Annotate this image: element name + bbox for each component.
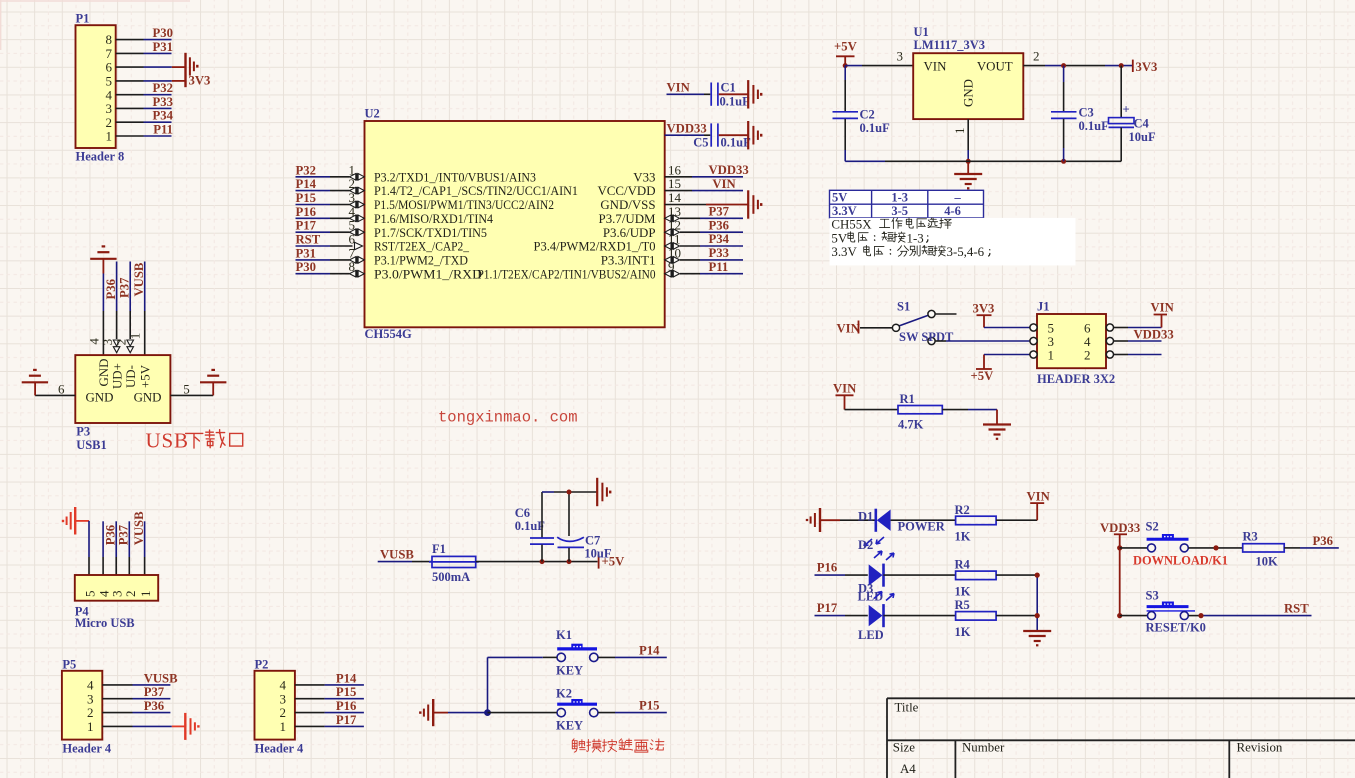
wire +5V to J1 pin 1 <box>984 354 1030 356</box>
svg-text:VIN: VIN <box>667 81 690 95</box>
power port 3V3 above J1 <box>973 302 995 328</box>
node +5V rail junction <box>843 63 848 68</box>
svg-text:K2: K2 <box>556 687 572 701</box>
svg-text:V33: V33 <box>633 170 655 184</box>
svg-text:P16: P16 <box>336 699 356 713</box>
svg-text:1: 1 <box>138 591 153 598</box>
P5 pin 2 wire, net P36 <box>102 712 132 714</box>
svg-text:P36: P36 <box>104 279 118 299</box>
svg-text:P32: P32 <box>153 81 173 95</box>
svg-text:–: – <box>953 191 961 205</box>
U1 pin 1 lead down <box>967 119 969 150</box>
power ground at P5 pin 1 (bright red) <box>185 713 198 740</box>
wire K1 right, net P14 <box>598 656 615 658</box>
wire R1 to ground <box>942 409 968 411</box>
svg-text:P30: P30 <box>296 260 316 274</box>
svg-text:0.1uF: 0.1uF <box>860 121 891 135</box>
svg-text:VUSB: VUSB <box>380 548 414 562</box>
svg-text:LED: LED <box>858 628 884 642</box>
P3 pin 2 wire, net P37 <box>129 262 131 312</box>
svg-text:F1: F1 <box>432 542 446 556</box>
svg-text:D1: D1 <box>858 510 873 524</box>
svg-text:GND: GND <box>962 79 976 107</box>
node R5 rail junction <box>1035 613 1040 618</box>
svg-text:P11: P11 <box>709 260 729 274</box>
svg-text:GND: GND <box>134 391 162 405</box>
svg-text:C2: C2 <box>860 108 875 122</box>
U2 pin 14 wire to ground <box>665 204 706 206</box>
wire K2 right, net P15 <box>598 712 615 714</box>
svg-text:10K: 10K <box>1256 555 1279 569</box>
svg-text:3V3: 3V3 <box>189 74 211 88</box>
P3 pin 5 wire <box>170 394 213 396</box>
svg-text:tongxinmao. com: tongxinmao. com <box>438 409 578 427</box>
connector P3 USB1 <box>75 333 170 452</box>
svg-text:P37: P37 <box>117 277 131 298</box>
svg-text:2: 2 <box>123 591 138 598</box>
U2 pin 4 wire, net P16 <box>296 217 331 219</box>
P4 pin 3 wire, net P37 <box>115 521 117 557</box>
P3 pin 6 wire <box>35 394 75 396</box>
svg-text:Micro USB: Micro USB <box>75 616 135 630</box>
svg-text:D2: D2 <box>858 538 873 552</box>
wire ground to D1 <box>820 519 840 521</box>
svg-text:HEADER 3X2: HEADER 3X2 <box>1037 372 1115 386</box>
resistor R2 1K <box>955 503 997 544</box>
svg-text:VDD33: VDD33 <box>709 163 749 177</box>
svg-text:UD-: UD- <box>124 365 138 388</box>
capacitor C1 0.1uF with VIN <box>667 80 751 108</box>
node R4 rail junction <box>1035 573 1040 578</box>
svg-text:2: 2 <box>1084 347 1091 362</box>
svg-text:P14: P14 <box>639 643 660 657</box>
power port VIN above R2 <box>1027 490 1050 504</box>
svg-text:P1: P1 <box>76 12 90 26</box>
wire P17 to D3 <box>815 615 846 617</box>
wire R5 to rail <box>996 615 1037 617</box>
power port VIN at S1 <box>837 321 860 336</box>
svg-text:500mA: 500mA <box>432 570 470 584</box>
svg-text:Header 4: Header 4 <box>255 742 304 756</box>
note line 3: 3.3V voltage short 3-5,4-6 <box>831 245 989 259</box>
node C7 junction <box>567 559 572 564</box>
P3 pin 3 wire, net P36 <box>116 262 118 312</box>
key K1 <box>556 628 598 677</box>
svg-text:10uF: 10uF <box>584 547 611 561</box>
earth ground below LED rail <box>1023 631 1051 645</box>
P1 pin 4 lead <box>116 94 144 96</box>
node C3 bottom junction <box>1061 159 1066 164</box>
wire net P33 <box>144 107 172 109</box>
node junction on P36 wire <box>1213 545 1218 550</box>
svg-text:U2: U2 <box>365 107 380 121</box>
U2 pin 6 wire, net RST <box>296 245 331 247</box>
U2 pin 1 wire, net P32 <box>296 176 331 178</box>
svg-text:P36: P36 <box>1313 534 1333 548</box>
svg-text:P33: P33 <box>153 95 173 109</box>
wire F1 to +5V <box>476 561 598 563</box>
resistor R5 1K <box>955 598 997 639</box>
P4 pin 4 wire, net P36 <box>102 521 104 557</box>
connector J1 HEADER 3X2 <box>1030 300 1115 387</box>
svg-text:14: 14 <box>668 190 682 205</box>
svg-text:3.3V: 3.3V <box>832 204 857 218</box>
svg-text:RST/T2EX_/CAP2_: RST/T2EX_/CAP2_ <box>374 240 469 254</box>
power ground left of D1 (bar style facing left) <box>807 508 820 532</box>
svg-text:P34: P34 <box>709 232 730 246</box>
svg-text:VDD33: VDD33 <box>667 122 707 136</box>
key K2 <box>556 687 598 733</box>
note line 1: CH55X working voltage selection <box>831 218 951 232</box>
svg-text:1: 1 <box>280 719 287 734</box>
connector P4 Micro USB <box>75 575 158 630</box>
title block <box>887 698 1355 778</box>
P1 pin 1 lead <box>116 135 144 137</box>
svg-text:Header 4: Header 4 <box>62 742 111 756</box>
node K2 riser junction <box>484 709 491 716</box>
inverted earth ground at P3 pin 6 <box>22 370 48 382</box>
capacitor C5 0.1uF with VDD33 <box>665 122 751 150</box>
wire J1 pin 6 to VIN <box>1114 327 1129 329</box>
svg-text:CH554G: CH554G <box>365 327 413 341</box>
power ground right of C7 <box>597 478 610 506</box>
wire net P31 <box>144 52 172 54</box>
wire +5V rail to U1 VIN <box>845 65 862 67</box>
node S2 left junction <box>1117 545 1122 550</box>
svg-text:R5: R5 <box>955 598 970 612</box>
svg-text:+5V: +5V <box>971 369 995 383</box>
regulator U1 LM1117_3V3 <box>897 25 1040 134</box>
U2 pin 8 wire, net P30 <box>296 273 331 275</box>
wire bottom rail <box>845 160 885 162</box>
svg-text:P34: P34 <box>153 109 174 123</box>
note line 2: 5V voltage short 1-3 <box>831 231 927 245</box>
power ground below U1 <box>967 161 969 173</box>
svg-text:15: 15 <box>668 176 681 191</box>
svg-text:P37: P37 <box>709 205 730 219</box>
svg-text:CH55X: CH55X <box>831 218 872 232</box>
svg-text:C5: C5 <box>693 135 708 149</box>
P1 pin 2 lead <box>116 121 144 123</box>
U2 pin 11 wire, net P34 <box>665 242 680 249</box>
svg-text:2: 2 <box>106 115 113 130</box>
svg-text:UD+: UD+ <box>111 363 125 389</box>
svg-text:1-3: 1-3 <box>907 231 924 245</box>
svg-text:GND: GND <box>86 391 114 405</box>
power port +5V below J1 <box>971 355 995 384</box>
svg-text:C7: C7 <box>585 534 600 548</box>
svg-text:2: 2 <box>280 705 287 720</box>
wire D2 to R4 <box>884 574 956 576</box>
svg-text:P16: P16 <box>817 560 837 574</box>
P2 pin 3 wire, net P15 <box>295 698 325 700</box>
wire top rail from U1 VOUT <box>1023 65 1045 67</box>
wire VDD33 to S2 <box>1120 547 1148 549</box>
svg-text:1: 1 <box>952 128 967 135</box>
capacitor C3 0.1uF <box>1051 66 1109 162</box>
svg-text:P2: P2 <box>255 658 269 672</box>
P1 pin 3 lead <box>116 107 144 109</box>
svg-text:P1.4/T2_/CAP1_/SCS/TIN2/UCC1/A: P1.4/T2_/CAP1_/SCS/TIN2/UCC1/AIN1 <box>374 184 578 198</box>
svg-text:+: + <box>1123 103 1130 117</box>
node C4 top junction <box>1119 63 1124 68</box>
P2 pin 4 wire, net P14 <box>295 684 325 686</box>
U2 right pin numbers 16-9 <box>668 162 682 274</box>
svg-text:P11: P11 <box>153 123 173 137</box>
power port VIN at R1 <box>833 382 856 410</box>
voltage selection table <box>830 190 984 218</box>
wire D3 to R5 <box>884 615 956 617</box>
svg-text:P15: P15 <box>639 699 659 713</box>
S1 upper throw stub <box>935 313 956 315</box>
svg-text:1K: 1K <box>955 625 971 639</box>
svg-text:P17: P17 <box>336 713 357 727</box>
svg-text:P33: P33 <box>709 246 729 260</box>
P3 pin 2 input arrows <box>127 340 134 353</box>
node top rail junction <box>567 490 572 495</box>
svg-text:P14: P14 <box>336 671 357 685</box>
svg-text:P3.1/PWM2_/TXD: P3.1/PWM2_/TXD <box>374 254 468 268</box>
switch S1 SW SPDT <box>892 300 954 345</box>
P1 pin 7 lead <box>116 52 144 54</box>
wire to 3V3 <box>144 66 172 68</box>
svg-text:P15: P15 <box>296 191 316 205</box>
svg-text:P30: P30 <box>153 26 173 40</box>
wire R4 to rail <box>996 574 1037 576</box>
U2 pin 9 wire, net P11 <box>665 270 680 277</box>
svg-text:VIN: VIN <box>1027 490 1050 504</box>
U2 pin 2 wire, net P14 <box>296 190 331 192</box>
power port +5V at U1 <box>834 39 858 65</box>
wire J1 pin 4, net VDD33 <box>1114 340 1129 342</box>
P1 pin 5 lead <box>116 80 144 82</box>
power port 3V3 at P1 <box>186 53 198 87</box>
svg-text:USB1: USB1 <box>76 438 107 452</box>
capacitor C6 0.1uF <box>515 492 554 562</box>
power port VDD33 at S2 <box>1100 521 1140 616</box>
svg-text:VCC/VDD: VCC/VDD <box>597 184 655 198</box>
svg-text:5: 5 <box>106 74 113 89</box>
svg-text:1: 1 <box>87 719 94 734</box>
svg-text:5V: 5V <box>832 191 847 205</box>
red caption: touch key drawing method <box>572 739 664 752</box>
svg-text:P3: P3 <box>76 425 90 439</box>
svg-text:4.7K: 4.7K <box>898 417 924 431</box>
U2 pin 10 wire, net P33 <box>665 256 680 263</box>
node C6 junction <box>540 559 545 564</box>
connector P2 Header 4 <box>255 658 304 756</box>
wire VIN to R1 <box>845 409 899 411</box>
svg-text:A4: A4 <box>900 762 916 776</box>
svg-text:P17: P17 <box>296 219 317 233</box>
wire R2 to VIN <box>996 519 1037 521</box>
P4 pin 2 wire, net VUSB <box>128 521 130 557</box>
svg-text:C6: C6 <box>515 506 530 520</box>
svg-text:3V3: 3V3 <box>1136 60 1158 74</box>
svg-text:POWER: POWER <box>898 520 946 534</box>
power ground left of K2 (bar style facing left) <box>420 699 433 726</box>
svg-text:P15: P15 <box>336 685 356 699</box>
svg-text:3: 3 <box>897 48 904 63</box>
svg-text:VUSB: VUSB <box>132 262 146 296</box>
U2 pin 5 wire, net P17 <box>296 231 331 233</box>
svg-text:8: 8 <box>106 32 113 47</box>
power port +5V at fuse output <box>599 554 625 568</box>
svg-text:P36: P36 <box>144 699 164 713</box>
svg-text:6: 6 <box>58 382 65 397</box>
svg-text:VIN: VIN <box>833 382 856 396</box>
svg-text:R1: R1 <box>900 392 915 406</box>
wire to 3V3 <box>144 80 172 82</box>
svg-text:3-5: 3-5 <box>891 204 908 218</box>
svg-text:P16: P16 <box>296 205 316 219</box>
wire R3 right, net P36 <box>1284 547 1300 549</box>
svg-text:K1: K1 <box>556 628 572 642</box>
svg-text:VIN: VIN <box>1151 301 1174 315</box>
inverted earth ground above P3 pin 4 <box>90 246 116 258</box>
svg-text:P31: P31 <box>296 246 316 260</box>
svg-text:RST: RST <box>1284 602 1309 616</box>
svg-text:P14: P14 <box>296 177 317 191</box>
U2 pin 16 wire, net VDD33 <box>665 176 692 178</box>
sheet edge ticks <box>0 0 190 2</box>
svg-text:P3.0/PWM1_/RXD: P3.0/PWM1_/RXD <box>374 267 482 281</box>
svg-text:1: 1 <box>1048 347 1055 362</box>
power ground at C1 <box>748 80 761 108</box>
svg-text:Title: Title <box>895 701 919 715</box>
svg-text:VDD33: VDD33 <box>1100 521 1140 535</box>
svg-text:P3.4/PWM2/RXD1_/T0: P3.4/PWM2/RXD1_/T0 <box>534 240 656 254</box>
svg-text:Size: Size <box>893 741 915 755</box>
svg-text:P1.5/MOSI/PWM1/TIN3/UCC2/AIN2: P1.5/MOSI/PWM1/TIN3/UCC2/AIN2 <box>374 198 554 212</box>
U2 pin 12 wire, net P36 <box>665 229 680 236</box>
resistor R1 4.7K <box>898 392 942 432</box>
svg-text:+5V: +5V <box>138 364 152 388</box>
svg-text:P1.1/T2EX/CAP2/TIN1/VBUS2/AIN0: P1.1/T2EX/CAP2/TIN1/VBUS2/AIN0 <box>478 267 656 281</box>
LED D2 <box>858 551 895 604</box>
svg-text:S2: S2 <box>1146 520 1159 534</box>
svg-text:4: 4 <box>280 678 287 693</box>
svg-text:P3.3/INT1: P3.3/INT1 <box>601 254 656 268</box>
node C3 top junction <box>1061 63 1066 68</box>
red caption USB download port <box>146 429 243 453</box>
wire 3V3 to J1 pin 5 <box>984 327 1030 329</box>
svg-text:C3: C3 <box>1079 106 1094 120</box>
connector P1 Header 8 <box>76 12 125 164</box>
svg-text:3-5,4-6: 3-5,4-6 <box>947 245 985 259</box>
svg-text:S1: S1 <box>897 300 910 314</box>
svg-text:VIN: VIN <box>712 177 735 191</box>
svg-text:1-3: 1-3 <box>891 191 908 205</box>
svg-text:Header 8: Header 8 <box>76 150 125 164</box>
key S2 DOWNLOAD/K1 <box>1133 520 1228 568</box>
svg-text:P3.2/TXD1_/INT0/VBUS1/AIN3: P3.2/TXD1_/INT0/VBUS1/AIN3 <box>374 170 536 184</box>
wire S3 right, net RST <box>1188 615 1201 617</box>
MCU U2 CH554G <box>365 107 665 342</box>
svg-text:3.3V: 3.3V <box>831 245 857 259</box>
U2 right pin names <box>478 170 657 281</box>
svg-text:1K: 1K <box>955 530 971 544</box>
svg-text:C1: C1 <box>721 80 736 94</box>
svg-text:DOWNLOAD/K1: DOWNLOAD/K1 <box>1133 553 1228 567</box>
wire S2 to R3, net P36 <box>1188 547 1242 549</box>
svg-text:P31: P31 <box>153 40 173 54</box>
P4 pin 1 wire <box>144 521 146 557</box>
wire net P11 <box>144 135 172 137</box>
svg-text:RESET/K0: RESET/K0 <box>1146 621 1206 635</box>
power port VIN right of J1 <box>1151 301 1174 328</box>
U2 left pin numbers 1-8 <box>349 162 356 274</box>
svg-text:P3.6/UDP: P3.6/UDP <box>603 226 656 240</box>
svg-text:GND/VSS: GND/VSS <box>600 198 655 212</box>
svg-text:R2: R2 <box>955 503 970 517</box>
svg-text:3V3: 3V3 <box>973 302 995 316</box>
connector P5 Header 4 <box>62 658 112 756</box>
svg-text:P32: P32 <box>296 163 316 177</box>
svg-text:6: 6 <box>106 60 113 75</box>
wire VIN to S1 <box>860 327 892 329</box>
wire K1 left to riser <box>543 656 557 658</box>
U2 left pin names <box>374 170 578 281</box>
wire D1 to R2, net POWER <box>891 519 956 521</box>
svg-text:P17: P17 <box>817 601 838 615</box>
wire P16 to D2 <box>815 574 846 576</box>
P3 pin 4 wire from ground <box>102 259 104 274</box>
P1 pin 8 lead <box>116 39 144 41</box>
LED ground rail <box>1036 575 1038 630</box>
svg-text:3: 3 <box>87 691 94 706</box>
white note background <box>830 218 1076 266</box>
P2 pin 2 wire, net P16 <box>295 712 325 714</box>
P2 pin 1 wire, net P17 <box>295 725 325 727</box>
svg-text:GND: GND <box>97 359 111 387</box>
wire top rail C6/C7 to ground <box>542 491 554 493</box>
LED D3 <box>858 592 894 643</box>
svg-text:4-6: 4-6 <box>944 204 961 218</box>
P3 pin 1 wire, net VUSB <box>144 262 146 312</box>
resistor R4 1K <box>955 558 997 599</box>
svg-text:P5: P5 <box>62 658 76 672</box>
svg-text:3: 3 <box>280 691 287 706</box>
node ground junction <box>966 159 971 164</box>
svg-text:3: 3 <box>106 101 113 116</box>
P4 pin 5 wire <box>88 521 90 557</box>
svg-text:VUSB: VUSB <box>144 671 178 685</box>
P5 pin 1 wire to ground <box>102 725 132 727</box>
power ground at U2 pin 14 <box>748 190 761 218</box>
svg-text:RST: RST <box>296 233 321 247</box>
svg-text:VOUT: VOUT <box>977 59 1013 73</box>
P3 pin 3 input arrows <box>113 340 120 353</box>
wire S1 to J1 pin 3 <box>935 340 946 342</box>
node junction on RST wire <box>1198 613 1203 618</box>
svg-text:C4: C4 <box>1134 117 1150 131</box>
svg-text:R3: R3 <box>1243 530 1258 544</box>
svg-text:16: 16 <box>668 162 682 177</box>
svg-text:1: 1 <box>106 129 113 144</box>
svg-text:2: 2 <box>1033 48 1040 63</box>
svg-text:0.1uF: 0.1uF <box>515 519 546 533</box>
svg-text:U1: U1 <box>914 25 929 39</box>
P1 pin 6 lead <box>116 66 144 68</box>
svg-text:P1.7/SCK/TXD1/TIN5: P1.7/SCK/TXD1/TIN5 <box>374 226 487 240</box>
earth ground at R1 <box>983 425 1011 439</box>
resistor R3 10K <box>1243 530 1285 569</box>
wire net P34 <box>144 121 172 123</box>
inverted earth ground at P3 pin 5 <box>200 370 226 382</box>
svg-text:+5V: +5V <box>834 39 858 53</box>
svg-text:5: 5 <box>183 382 190 397</box>
